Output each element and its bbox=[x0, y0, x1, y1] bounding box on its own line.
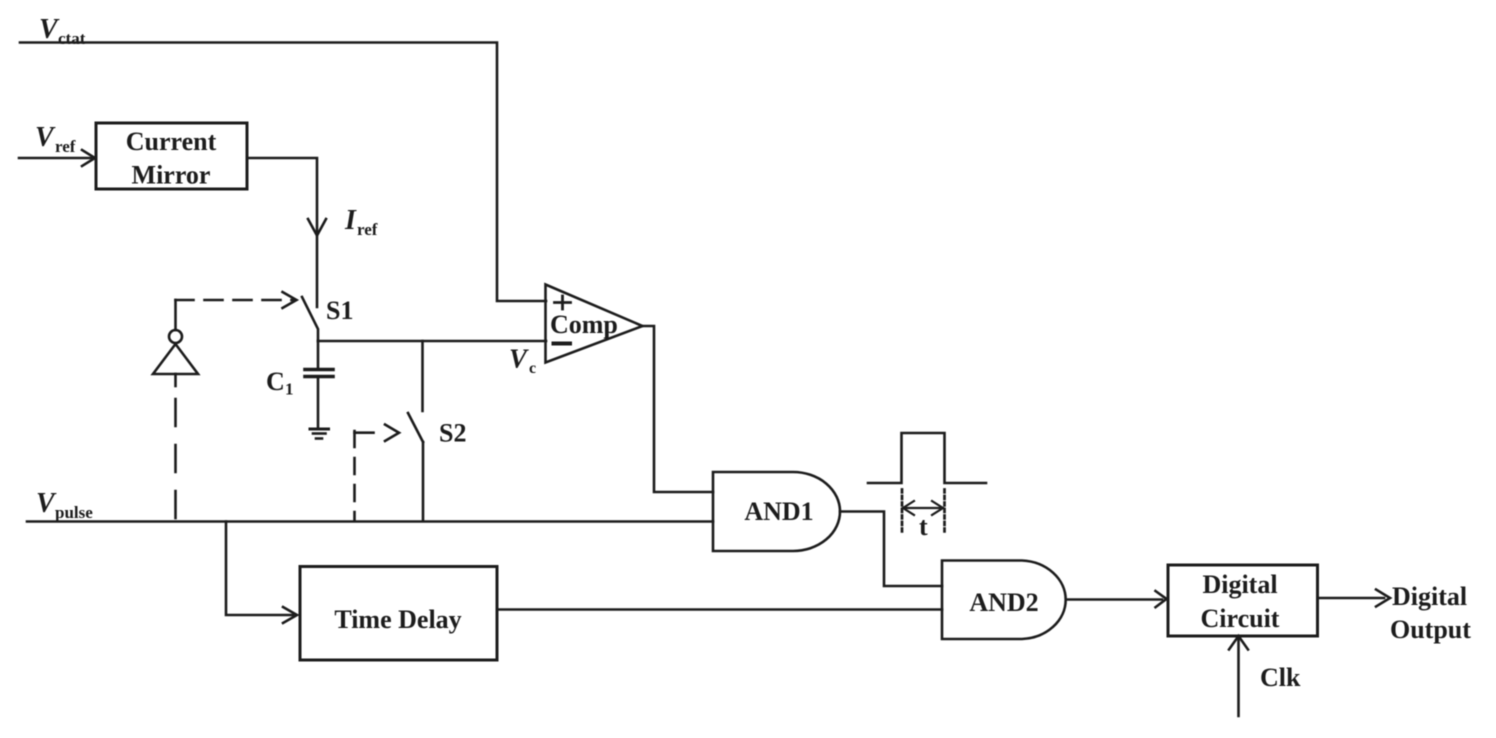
wire node Vc from S1/C1 to comparator - input bbox=[318, 340, 546, 343]
svg-text:c: c bbox=[529, 360, 536, 377]
dimension lines for pulse width t bbox=[902, 490, 945, 535]
svg-text:t: t bbox=[919, 512, 928, 541]
switch S1 bbox=[302, 297, 318, 341]
wire branch from Vpulse down into Time Delay with arrowhead bbox=[226, 522, 297, 624]
svg-text:AND2: AND2 bbox=[969, 588, 1038, 617]
svg-text:Digital: Digital bbox=[1202, 570, 1277, 599]
waveform pulse sketch bbox=[868, 433, 986, 483]
svg-text:V: V bbox=[509, 344, 529, 374]
svg-text:C: C bbox=[266, 367, 285, 396]
wire Vctat to comparator + input bbox=[20, 43, 546, 302]
wire comparator output to AND1 upper input bbox=[643, 326, 714, 492]
wire Time Delay output to AND2 lower input bbox=[497, 608, 942, 611]
wire Vref into Current Mirror bbox=[19, 157, 93, 160]
svg-text:Mirror: Mirror bbox=[132, 161, 211, 190]
block Digital Circuit bbox=[1168, 565, 1318, 636]
svg-text:Comp: Comp bbox=[550, 310, 618, 339]
label Digital Output bbox=[1390, 582, 1471, 644]
wire AND2 output into Digital Circuit with arrowhead bbox=[1068, 591, 1167, 607]
block Current Mirror bbox=[96, 123, 247, 190]
inverter U1 (pulse inverter for S1 control) bbox=[153, 330, 198, 374]
svg-text:Current: Current bbox=[126, 127, 217, 156]
svg-text:ref: ref bbox=[357, 220, 378, 239]
svg-text:V: V bbox=[35, 122, 56, 153]
wire AND1 output to AND2 upper input bbox=[840, 512, 942, 587]
gate AND2 bbox=[942, 561, 1066, 640]
block Time Delay bbox=[300, 567, 497, 661]
op-amp U2 comparator Comp bbox=[546, 285, 643, 363]
arrowhead Iref current direction bbox=[308, 219, 326, 236]
label Iref bbox=[344, 205, 378, 239]
ground bbox=[310, 429, 329, 439]
label Vc bbox=[509, 344, 536, 378]
wire Clk into Digital Circuit with arrowhead bbox=[1229, 636, 1248, 716]
svg-text:Digital: Digital bbox=[1392, 582, 1467, 611]
gate AND1 bbox=[713, 472, 840, 551]
label C1 bbox=[266, 367, 294, 399]
svg-text:ctat: ctat bbox=[58, 29, 86, 48]
wire Current Mirror output down to S1 bbox=[247, 158, 317, 307]
svg-text:ref: ref bbox=[55, 137, 76, 156]
wire dashed inverter output to S1 with arrowhead bbox=[176, 292, 297, 330]
svg-text:Output: Output bbox=[1390, 615, 1471, 644]
node Vpulse label bbox=[36, 488, 93, 522]
svg-text:S2: S2 bbox=[439, 419, 466, 448]
wire Vpulse main line to AND1 lower input bbox=[27, 520, 713, 523]
wire Digital Circuit output with arrowhead bbox=[1318, 590, 1390, 607]
switch S2 bbox=[408, 341, 423, 521]
capacitor C1 bbox=[305, 341, 333, 428]
svg-text:S1: S1 bbox=[326, 296, 353, 325]
wire dashed control from Vpulse up to inverter input bbox=[174, 374, 177, 386]
svg-text:Clk: Clk bbox=[1260, 663, 1301, 692]
svg-text:I: I bbox=[344, 205, 357, 236]
svg-text:Time Delay: Time Delay bbox=[334, 605, 461, 634]
wire dashed control from Vpulse to S2 with arrowhead bbox=[355, 425, 400, 522]
svg-text:1: 1 bbox=[285, 380, 294, 399]
svg-text:Circuit: Circuit bbox=[1201, 604, 1280, 633]
svg-text:AND1: AND1 bbox=[744, 497, 813, 526]
svg-text:pulse: pulse bbox=[55, 503, 93, 522]
svg-text:V: V bbox=[36, 488, 57, 519]
svg-text:V: V bbox=[39, 14, 60, 45]
